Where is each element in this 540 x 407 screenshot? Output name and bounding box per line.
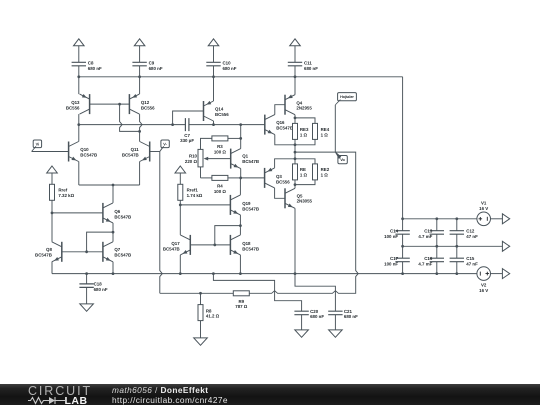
- svg-text:Q19BC547B: Q19BC547B: [242, 201, 259, 211]
- svg-text:Q8BC547B: Q8BC547B: [35, 247, 52, 257]
- svg-text:RE41 Ω: RE41 Ω: [321, 127, 330, 137]
- svg-text:R3100 Ω: R3100 Ω: [214, 144, 227, 154]
- svg-text:Q6BC547B: Q6BC547B: [114, 209, 131, 219]
- svg-text:Q16BC547B: Q16BC547B: [276, 120, 293, 130]
- svg-text:Q10BC547B: Q10BC547B: [80, 147, 97, 157]
- svg-text:Q52N3055: Q52N3055: [297, 193, 313, 203]
- svg-text:Q1BC547B: Q1BC547B: [242, 154, 259, 164]
- svg-text:C17100 nF: C17100 nF: [384, 256, 398, 266]
- svg-text:Rref7.32 kΩ: Rref7.32 kΩ: [58, 187, 74, 197]
- svg-text:Q11BC547B: Q11BC547B: [122, 147, 139, 157]
- svg-text:C164.7 mF: C164.7 mF: [418, 256, 432, 266]
- svg-text:Q18BC547B: Q18BC547B: [242, 241, 259, 251]
- svg-text:V116 V: V116 V: [479, 200, 488, 210]
- svg-text:Q14BC556: Q14BC556: [215, 106, 229, 116]
- svg-text:Q3BC556: Q3BC556: [276, 174, 290, 184]
- svg-text:C9680 nF: C9680 nF: [149, 61, 163, 71]
- svg-text:Q17BC547B: Q17BC547B: [163, 241, 180, 251]
- svg-text:R10220 Ω: R10220 Ω: [185, 154, 198, 164]
- svg-text:Vi: Vi: [36, 142, 40, 146]
- svg-text:R9787 Ω: R9787 Ω: [235, 299, 248, 309]
- svg-text:Q12BC556: Q12BC556: [141, 100, 155, 110]
- svg-text:C7330 pF: C7330 pF: [180, 133, 194, 143]
- svg-text:Rref11.74 kΩ: Rref11.74 kΩ: [187, 187, 203, 197]
- svg-text:R4100 Ω: R4100 Ω: [214, 183, 227, 193]
- svg-text:C1247 nF: C1247 nF: [466, 229, 478, 239]
- svg-text:C10680 nF: C10680 nF: [223, 61, 237, 71]
- svg-text:RE31 Ω: RE31 Ω: [300, 127, 309, 137]
- svg-text:C20680 nF: C20680 nF: [310, 309, 324, 319]
- svg-text:Hojtaler: Hojtaler: [340, 95, 354, 99]
- svg-text:C11680 nF: C11680 nF: [304, 61, 318, 71]
- svg-text:C1547 nF: C1547 nF: [466, 256, 478, 266]
- svg-text:Vo: Vo: [340, 158, 345, 162]
- svg-text:Q42N2955: Q42N2955: [296, 100, 312, 110]
- svg-text:C14100 nF: C14100 nF: [384, 229, 398, 239]
- svg-text:C8680 nF: C8680 nF: [88, 61, 102, 71]
- svg-text:Q13BC556: Q13BC556: [66, 100, 80, 110]
- svg-text:RE1 Ω: RE1 Ω: [300, 167, 308, 177]
- svg-text:R841.2 Ω: R841.2 Ω: [206, 308, 220, 318]
- svg-text:C18680 nF: C18680 nF: [94, 282, 108, 292]
- svg-text:C21680 nF: C21680 nF: [344, 309, 358, 319]
- svg-text:RE21 Ω: RE21 Ω: [321, 167, 330, 177]
- svg-text:V216 V: V216 V: [479, 282, 488, 292]
- svg-text:C134.7 mF: C134.7 mF: [418, 229, 432, 239]
- svg-text:Q7BC547B: Q7BC547B: [114, 247, 131, 257]
